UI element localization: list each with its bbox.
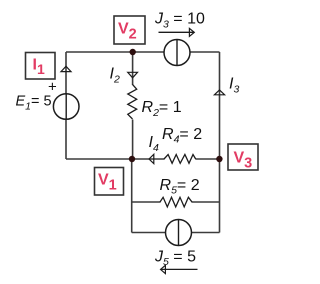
wire middle vertical lower (V1 node down to bottom loop) (131, 159, 133, 233)
resistor R5 (160, 197, 192, 208)
svg-text:E1= 5: E1= 5 (16, 94, 52, 113)
wire right vertical rail (219, 52, 221, 233)
current arrow I2 (points down, on middle wire) (128, 72, 138, 78)
voltage label box V2 (114, 16, 145, 44)
reference arrow J5 (points left) (161, 265, 198, 273)
svg-text:R2= 1: R2= 1 (142, 99, 182, 119)
wire middle vertical (V2 node through R2 to V1 node) (132, 52, 134, 159)
svg-text:I3: I3 (229, 76, 239, 96)
voltage label box V1 (95, 168, 124, 196)
current arrow I1 (points up, on left wire) (61, 66, 71, 71)
voltage source E1 (circle symbol) (53, 94, 79, 120)
wire bottom horizontal (J5 branch) (132, 232, 220, 234)
current label box I1 (26, 53, 56, 80)
svg-text:J5 = 5: J5 = 5 (154, 248, 196, 268)
node V3 (junction dot) (216, 156, 222, 162)
svg-text:I4: I4 (149, 134, 159, 154)
reference arrow J3 (points right) (159, 28, 195, 36)
wire top horizontal (V2 node to J3 to right rail) (66, 51, 220, 53)
current source J5 (circle symbol) (166, 220, 192, 246)
current source J3 (circle symbol) (164, 40, 190, 66)
current arrow I4 (points left, on middle horizontal wire) (149, 154, 154, 163)
resistor R4 (164, 154, 196, 165)
wire R5 horizontal (132, 201, 220, 203)
voltage label box V3 (228, 144, 258, 171)
wire left vertical (E1 branch) (65, 52, 67, 159)
svg-text:J3 = 10: J3 = 10 (154, 11, 205, 31)
current arrow I3 (points up, on right rail) (214, 90, 224, 95)
wire bottom-left horizontal (E1 to V1 node) (66, 158, 132, 160)
svg-text:R5= 2: R5= 2 (160, 177, 200, 197)
wire middle horizontal (V1 node to R4 to V3 node) (132, 158, 220, 160)
svg-text:R4= 2: R4= 2 (162, 126, 202, 146)
resistor R2 (126, 84, 140, 119)
svg-text:I2: I2 (110, 66, 120, 86)
node V2 (junction dot) (130, 49, 136, 55)
node V1 (junction dot) (129, 156, 135, 162)
